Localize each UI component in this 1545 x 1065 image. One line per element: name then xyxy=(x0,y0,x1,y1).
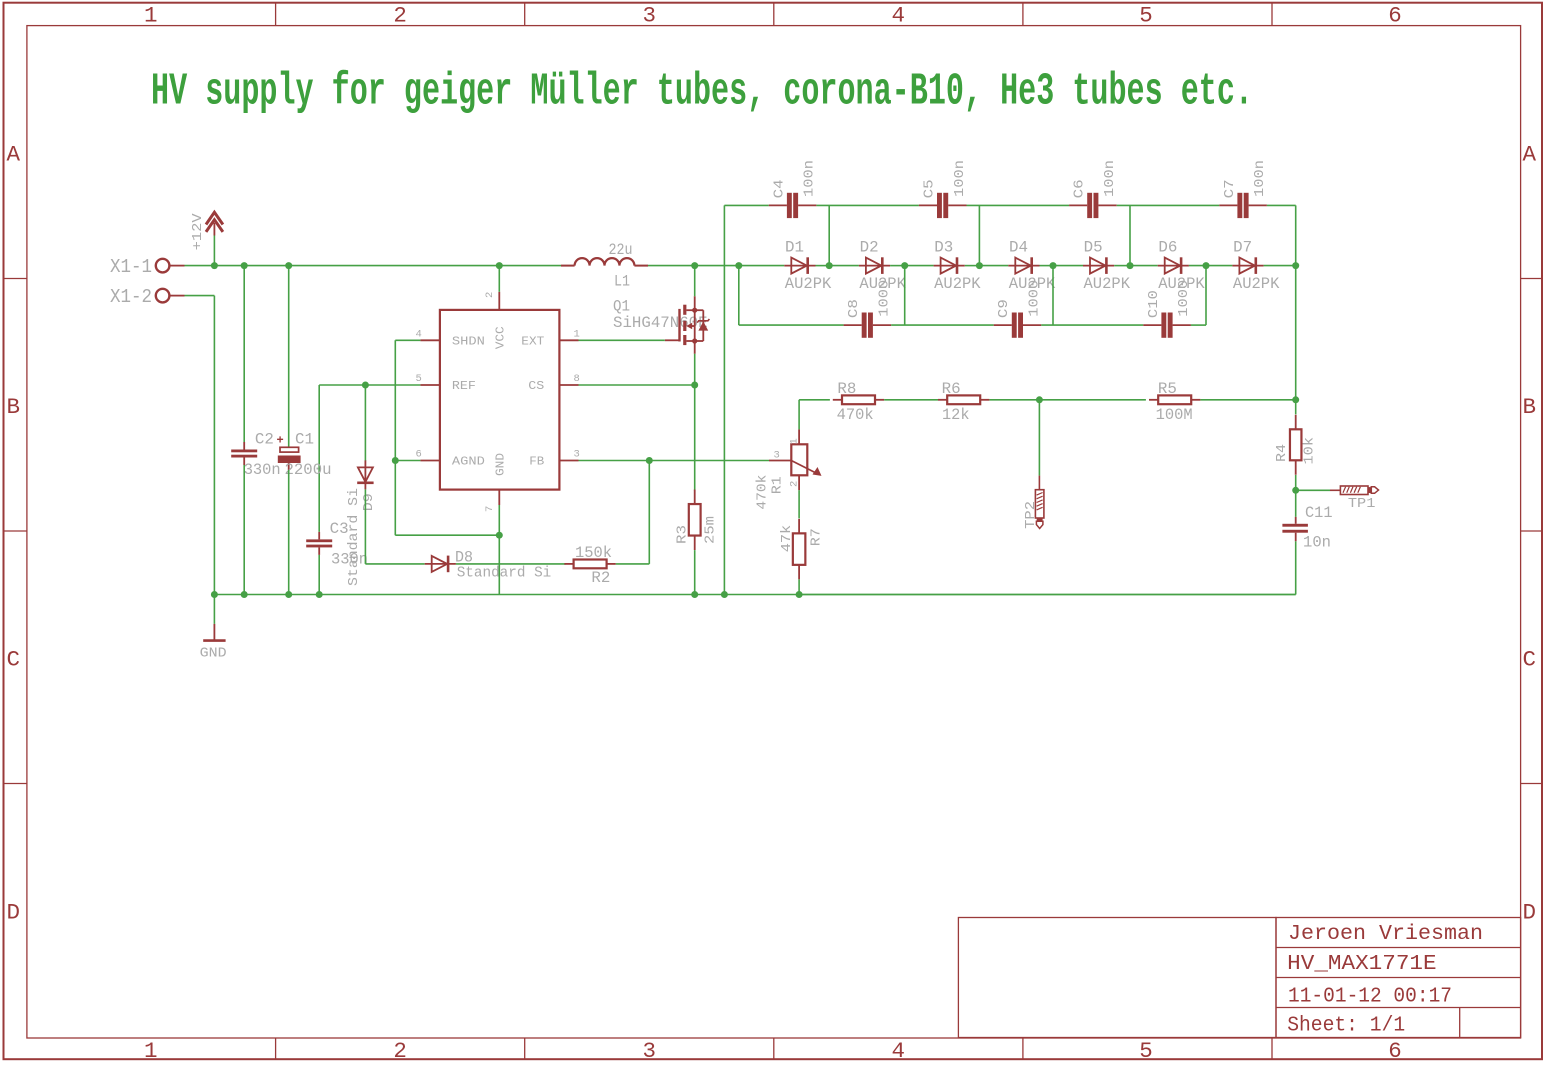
junction GND pin xyxy=(496,532,503,539)
svg-text:D6: D6 xyxy=(1158,239,1177,257)
junction diode node 4 xyxy=(1040,262,1057,269)
svg-text:+12V: +12V xyxy=(191,212,206,250)
svg-text:C7: C7 xyxy=(1222,179,1238,198)
wire diode row segment 3 xyxy=(905,265,934,267)
junction ground C2 xyxy=(241,591,248,598)
svg-text:4: 4 xyxy=(416,329,422,341)
wire bottom cap row segment 2 xyxy=(891,324,994,326)
wire top cap row right end xyxy=(1267,204,1296,206)
diode D6 AU2PK xyxy=(1158,239,1206,293)
test point TP1 xyxy=(1330,486,1379,512)
wire diode row segment 4 xyxy=(979,265,1008,267)
svg-text:10k: 10k xyxy=(1302,437,1318,465)
ground GND symbol xyxy=(200,595,227,662)
wire bottom cap row segment 1 xyxy=(739,324,844,326)
svg-text:Q1: Q1 xyxy=(613,298,630,316)
svg-text:AU2PK: AU2PK xyxy=(934,275,981,293)
diode D7 AU2PK xyxy=(1232,239,1280,293)
svg-text:R7: R7 xyxy=(809,528,825,546)
wire diode row segment 7 xyxy=(1206,265,1232,267)
svg-text:2200u: 2200u xyxy=(285,461,332,479)
capacitor C3 330n xyxy=(306,520,368,569)
wire top cap row segment 1 xyxy=(816,204,919,206)
svg-text:TP1: TP1 xyxy=(1348,496,1376,512)
wire X1-2 to ground rail xyxy=(185,296,215,595)
svg-text:HV supply for geiger Müller tu: HV supply for geiger Müller tubes, coron… xyxy=(151,67,1253,118)
diode D4 AU2PK xyxy=(1008,239,1056,293)
svg-text:6: 6 xyxy=(416,449,422,461)
pin 3 FB xyxy=(559,449,579,461)
svg-text:R5: R5 xyxy=(1158,380,1177,398)
junction +12V arrow xyxy=(211,262,218,269)
svg-text:C10: C10 xyxy=(1146,290,1162,318)
svg-text:C8: C8 xyxy=(846,299,862,318)
junction ground ladder xyxy=(721,591,728,598)
junction diode node 1 xyxy=(816,262,833,269)
svg-text:HV_MAX1771E: HV_MAX1771E xyxy=(1287,952,1436,976)
diode D8 Standard Si xyxy=(425,549,552,582)
svg-text:Standard Si: Standard Si xyxy=(457,566,552,582)
svg-text:3: 3 xyxy=(774,450,780,462)
junction ground R7 xyxy=(796,591,803,598)
svg-text:R6: R6 xyxy=(942,380,961,398)
svg-text:100n: 100n xyxy=(952,160,968,197)
svg-text:2: 2 xyxy=(393,3,407,29)
resistor R3 25m xyxy=(674,490,718,551)
svg-text:A: A xyxy=(1522,141,1536,167)
svg-text:R8: R8 xyxy=(837,380,856,398)
inductor L1 22u xyxy=(561,241,648,291)
junction TP2 node xyxy=(1036,396,1043,403)
svg-text:+: + xyxy=(277,434,284,448)
svg-text:25m: 25m xyxy=(703,516,719,544)
pin 7 GND xyxy=(484,490,499,512)
svg-text:AU2PK: AU2PK xyxy=(785,275,832,293)
capacitor C2 330n xyxy=(231,266,281,479)
svg-text:X1-1: X1-1 xyxy=(110,256,152,278)
svg-text:REF: REF xyxy=(452,379,476,393)
wire SHDN to GND pin xyxy=(395,534,499,536)
diode D9 Standard Si xyxy=(346,460,377,586)
svg-text:Standard Si: Standard Si xyxy=(346,488,362,586)
svg-text:D: D xyxy=(6,900,20,926)
svg-text:1: 1 xyxy=(789,438,801,444)
resistor R4 10k xyxy=(1274,400,1317,475)
junction diode node 5 xyxy=(1114,262,1133,269)
wire top cap row left end xyxy=(724,204,768,206)
wire D9 to D8 xyxy=(365,489,424,564)
svg-text:8: 8 xyxy=(574,373,580,385)
connector X1-1 xyxy=(110,256,185,278)
svg-text:3: 3 xyxy=(574,449,580,461)
svg-text:R1: R1 xyxy=(770,476,786,494)
pin 2 VCC xyxy=(484,292,499,310)
wire drain to rail xyxy=(694,266,696,297)
capacitor C6 100n xyxy=(1069,160,1118,218)
junction drain node xyxy=(691,262,698,269)
wire diode row segment 1 xyxy=(739,265,785,267)
svg-text:C: C xyxy=(1522,646,1536,672)
wire FB line xyxy=(579,460,770,462)
svg-text:A: A xyxy=(6,141,20,167)
wire diode row segment 6 xyxy=(1130,265,1158,267)
wire C2 to ground rail xyxy=(243,465,245,595)
svg-text:2: 2 xyxy=(484,292,496,298)
svg-text:22u: 22u xyxy=(609,241,633,259)
wire R1 pin2 to R7 xyxy=(798,490,800,518)
wire top cap row segment 2 xyxy=(967,204,1070,206)
junction C1 tap xyxy=(285,262,292,269)
wire D9 branch xyxy=(364,385,366,461)
capacitor C8 1000 xyxy=(844,280,893,338)
wire C1 to ground rail xyxy=(288,470,290,595)
junction diode node 2 xyxy=(890,262,908,269)
svg-text:SHDN: SHDN xyxy=(452,334,485,348)
svg-text:L1: L1 xyxy=(614,273,630,291)
wire riser node5 xyxy=(1129,205,1131,265)
junction diode node 7 xyxy=(1264,262,1300,269)
svg-text:D2: D2 xyxy=(860,239,879,257)
capacitor C1 2200u polarized xyxy=(277,266,332,479)
junction ground C1 xyxy=(285,591,292,598)
svg-text:R2: R2 xyxy=(591,569,610,587)
svg-text:B: B xyxy=(6,394,20,420)
svg-text:47k: 47k xyxy=(779,525,795,553)
svg-text:100n: 100n xyxy=(1102,160,1118,197)
resistor R2 150k xyxy=(564,544,615,587)
junction ground C3 xyxy=(316,591,323,598)
wire riser node1 xyxy=(828,205,830,265)
svg-text:2: 2 xyxy=(789,481,801,487)
svg-text:AGND: AGND xyxy=(452,454,485,468)
junction diode node 3 xyxy=(965,262,983,269)
svg-text:5: 5 xyxy=(416,373,422,385)
svg-text:470k: 470k xyxy=(755,475,771,510)
wire bottom cap row segment 3 xyxy=(1041,324,1143,326)
pin 6 AGND xyxy=(416,449,440,461)
svg-text:1000: 1000 xyxy=(1176,280,1192,317)
svg-text:AU2PK: AU2PK xyxy=(1084,275,1131,293)
svg-text:D4: D4 xyxy=(1009,239,1028,257)
svg-text:150k: 150k xyxy=(575,544,612,562)
svg-text:B: B xyxy=(1522,394,1536,420)
svg-text:2: 2 xyxy=(393,1038,407,1064)
capacitor C5 100n xyxy=(919,160,968,218)
connector X1-2 xyxy=(110,286,185,308)
op-amp U1 MAX1771 controller xyxy=(440,310,560,490)
svg-text:6: 6 xyxy=(1388,3,1402,29)
wire L1 to drain node xyxy=(648,265,739,267)
wire TP1 stub xyxy=(1296,489,1330,491)
junction CS node xyxy=(691,382,698,389)
junction TP1 node xyxy=(1292,487,1299,494)
svg-text:D3: D3 xyxy=(934,239,953,257)
resistor R8 470k xyxy=(833,380,884,424)
wire drop node4 to bottom row xyxy=(1052,266,1054,326)
junction diode chain node 0 xyxy=(735,262,742,269)
wire R4 to TP1 node xyxy=(1295,475,1297,490)
junction FB node xyxy=(646,457,653,464)
wire R2 to FB drop xyxy=(616,461,650,564)
svg-text:FB: FB xyxy=(529,454,544,468)
svg-text:D7: D7 xyxy=(1233,239,1252,257)
diode D3 AU2PK xyxy=(934,239,982,293)
svg-text:330n: 330n xyxy=(244,461,281,479)
svg-text:SiHG47N60E: SiHG47N60E xyxy=(613,314,708,332)
junction AGND xyxy=(392,457,399,464)
resistor R7 47k xyxy=(779,519,825,580)
svg-text:C2: C2 xyxy=(255,431,274,449)
capacitor C11 10n xyxy=(1282,490,1332,551)
svg-text:100M: 100M xyxy=(1156,406,1193,424)
svg-text:1: 1 xyxy=(144,3,158,29)
wire ground rail xyxy=(214,594,1295,596)
wire R6 to R5 xyxy=(989,399,1146,401)
svg-text:D9: D9 xyxy=(361,493,377,511)
svg-text:Jeroen Vriesman: Jeroen Vriesman xyxy=(1288,922,1483,946)
pin 4 SHDN xyxy=(416,329,440,341)
wire VCC to rail xyxy=(498,266,500,292)
svg-text:11-01-12 00:17: 11-01-12 00:17 xyxy=(1288,985,1452,1009)
svg-text:3: 3 xyxy=(642,3,656,29)
resistor R6 12k xyxy=(938,380,989,424)
wire R3 to ground rail xyxy=(694,550,696,594)
svg-text:R4: R4 xyxy=(1274,444,1290,462)
wire C11 to ground rail xyxy=(799,541,1296,594)
svg-text:6: 6 xyxy=(1388,1038,1402,1064)
svg-text:470k: 470k xyxy=(837,406,874,424)
svg-text:GND: GND xyxy=(200,646,227,661)
svg-text:1: 1 xyxy=(144,1038,158,1064)
resistor R5 100M xyxy=(1149,380,1200,424)
wire AGND to pin xyxy=(395,460,420,462)
svg-text:D1: D1 xyxy=(785,239,804,257)
wire drop node2 to bottom row xyxy=(904,266,906,326)
svg-text:100n: 100n xyxy=(1252,160,1268,197)
wire R8 to R6 xyxy=(884,399,938,401)
svg-text:3: 3 xyxy=(642,1038,656,1064)
svg-text:4: 4 xyxy=(892,1038,906,1064)
wire SHDN down xyxy=(395,340,420,535)
wire R8 corner to R1 pin1 xyxy=(799,400,830,430)
wire HV riser to R5 row xyxy=(1295,266,1297,400)
svg-text:TP2: TP2 xyxy=(1023,501,1039,529)
svg-text:C9: C9 xyxy=(996,299,1012,318)
pin 5 REF xyxy=(416,373,440,385)
svg-text:C4: C4 xyxy=(771,179,787,198)
junction ground X1-2 xyxy=(211,591,218,598)
capacitor C10 1000 xyxy=(1143,280,1192,338)
wire REF line xyxy=(319,385,420,532)
svg-text:7: 7 xyxy=(484,506,496,512)
svg-text:EXT: EXT xyxy=(521,334,544,348)
wire C3 to ground rail xyxy=(318,555,320,595)
svg-text:C5: C5 xyxy=(921,179,937,198)
wire source down xyxy=(694,354,696,491)
wire diode row segment 2 xyxy=(829,265,859,267)
wire GND pin to ground rail xyxy=(498,505,500,595)
svg-text:12k: 12k xyxy=(942,406,970,424)
svg-text:C6: C6 xyxy=(1072,179,1088,198)
wire +12V stem xyxy=(213,236,215,266)
title block xyxy=(958,918,1520,1038)
wire R5 to HV node xyxy=(1200,399,1295,401)
junction diode node 6 xyxy=(1189,262,1210,269)
svg-text:CS: CS xyxy=(528,379,544,393)
svg-text:VCC: VCC xyxy=(494,326,508,349)
svg-text:10n: 10n xyxy=(1303,534,1331,552)
wire bottom cap row right end xyxy=(1191,324,1206,326)
junction D9 tap xyxy=(362,382,369,389)
wire EXT to gate xyxy=(579,339,665,341)
junction HV node xyxy=(1292,396,1299,403)
svg-text:R3: R3 xyxy=(674,525,690,544)
wire +12V rail xyxy=(185,265,562,267)
transistor Q1 SiHG47N60E xyxy=(613,296,709,354)
wire left ladder drop xyxy=(723,205,725,594)
svg-text:C11: C11 xyxy=(1305,504,1333,522)
svg-text:D5: D5 xyxy=(1084,239,1103,257)
wire TP2 drop xyxy=(1038,400,1040,476)
junction C2 tap xyxy=(241,262,248,269)
wire riser node6 from bottom row xyxy=(1205,266,1207,326)
diode D1 AU2PK xyxy=(784,239,832,293)
junction VCC tap xyxy=(496,262,503,269)
wire top cap row segment 3 xyxy=(1117,204,1220,206)
svg-text:1: 1 xyxy=(574,329,580,341)
pin 8 CS xyxy=(559,373,579,385)
svg-text:1000: 1000 xyxy=(1027,280,1043,317)
wire R7 to ground rail xyxy=(798,579,800,594)
wire diode row segment 5 xyxy=(1053,265,1083,267)
power symbol +12V xyxy=(191,212,223,250)
diode D5 AU2PK xyxy=(1083,239,1131,293)
capacitor C7 100n xyxy=(1219,160,1268,218)
wire riser node3 xyxy=(978,205,980,265)
svg-text:AU2PK: AU2PK xyxy=(1233,275,1280,293)
svg-text:C1: C1 xyxy=(295,431,314,449)
svg-text:X1-2: X1-2 xyxy=(110,286,152,308)
test point TP2 xyxy=(1023,476,1044,529)
pin 1 EXT xyxy=(559,329,579,341)
svg-text:5: 5 xyxy=(1139,1038,1153,1064)
capacitor C4 100n xyxy=(769,160,818,218)
svg-text:GND: GND xyxy=(494,453,508,476)
wire HV right riser xyxy=(1295,205,1297,265)
wire CS line xyxy=(579,384,695,386)
wire D8 to R2 xyxy=(456,563,566,565)
svg-text:C: C xyxy=(6,646,20,672)
svg-text:D: D xyxy=(1522,900,1536,926)
svg-text:5: 5 xyxy=(1139,3,1153,29)
wire drop node0 to bottom row xyxy=(738,266,740,326)
junction ground R3 xyxy=(691,591,698,598)
svg-text:1000: 1000 xyxy=(877,280,893,317)
svg-text:100n: 100n xyxy=(802,160,818,197)
svg-text:4: 4 xyxy=(892,3,906,29)
potentiometer R1 470k xyxy=(755,429,822,509)
capacitor C9 1000 xyxy=(994,280,1043,338)
diode D2 AU2PK xyxy=(859,239,907,293)
svg-text:Sheet: 1/1: Sheet: 1/1 xyxy=(1287,1013,1405,1037)
